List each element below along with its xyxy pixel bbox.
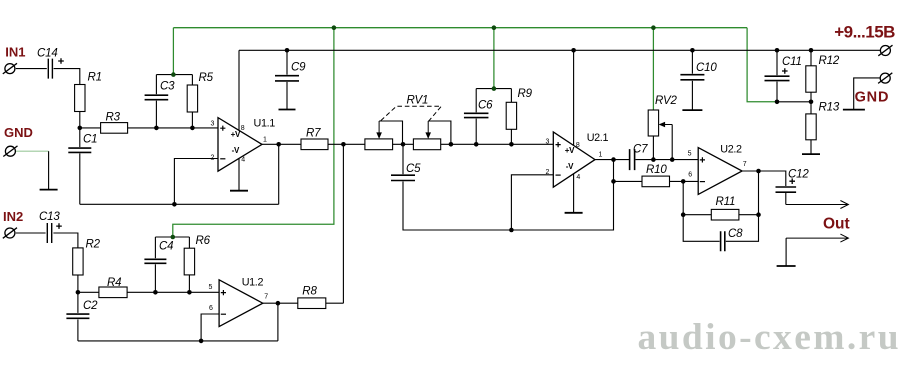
svg-text:R5: R5 [199, 72, 214, 84]
svg-text:4: 4 [241, 156, 245, 163]
svg-text:+V: +V [565, 146, 575, 155]
svg-text:4: 4 [576, 174, 580, 181]
svg-text:R3: R3 [106, 112, 121, 124]
svg-text:GND: GND [4, 125, 33, 140]
svg-text:C4: C4 [159, 241, 173, 253]
svg-text:RV2: RV2 [655, 95, 677, 107]
svg-text:R6: R6 [196, 235, 211, 247]
svg-text:1: 1 [599, 152, 603, 159]
svg-text:audio-cxem.ru: audio-cxem.ru [638, 317, 900, 358]
svg-text:1: 1 [263, 137, 267, 144]
svg-text:C8: C8 [728, 228, 743, 240]
svg-text:2: 2 [211, 154, 215, 161]
svg-text:6: 6 [688, 172, 692, 179]
svg-text:C6: C6 [478, 100, 493, 112]
svg-text:8: 8 [241, 125, 245, 132]
svg-text:IN2: IN2 [3, 209, 23, 224]
svg-text:C2: C2 [83, 300, 98, 312]
svg-text:R7: R7 [306, 128, 321, 140]
svg-text:C10: C10 [696, 62, 717, 74]
svg-text:R11: R11 [716, 196, 736, 208]
svg-text:C3: C3 [160, 81, 175, 93]
svg-text:R2: R2 [86, 239, 101, 251]
svg-text:U1.1: U1.1 [254, 117, 276, 129]
svg-text:C13: C13 [39, 211, 60, 223]
svg-text:R10: R10 [646, 164, 667, 176]
svg-text:R8: R8 [302, 285, 317, 297]
svg-text:C7: C7 [633, 143, 648, 155]
svg-text:C1: C1 [83, 134, 97, 146]
svg-text:5: 5 [688, 150, 692, 157]
svg-text:IN1: IN1 [5, 44, 25, 59]
svg-text:RV1: RV1 [407, 94, 429, 106]
svg-text:R13: R13 [819, 101, 840, 113]
svg-text:C5: C5 [406, 163, 421, 175]
svg-text:5: 5 [209, 284, 213, 291]
svg-text:-V: -V [232, 146, 240, 155]
svg-text:3: 3 [211, 120, 215, 127]
svg-text:R1: R1 [88, 72, 102, 84]
svg-text:-V: -V [566, 162, 574, 171]
svg-text:C14: C14 [37, 47, 58, 59]
svg-text:GND: GND [855, 90, 890, 106]
svg-text:8: 8 [576, 142, 580, 149]
svg-text:R9: R9 [518, 88, 533, 100]
svg-text:Out: Out [823, 216, 850, 233]
svg-text:U2.2: U2.2 [720, 143, 742, 155]
svg-text:C11: C11 [782, 56, 802, 68]
svg-text:R4: R4 [107, 277, 121, 289]
svg-text:2: 2 [546, 169, 550, 176]
svg-text:6: 6 [209, 305, 213, 312]
svg-text:7: 7 [264, 294, 268, 301]
svg-text:U2.1: U2.1 [587, 132, 609, 144]
svg-text:U1.2: U1.2 [242, 276, 264, 288]
svg-text:7: 7 [743, 161, 747, 168]
svg-text:+9...15В: +9...15В [834, 22, 895, 41]
svg-text:R12: R12 [819, 55, 840, 67]
svg-text:3: 3 [546, 138, 550, 145]
svg-text:+V: +V [231, 130, 241, 139]
svg-text:C12: C12 [788, 169, 809, 181]
svg-text:C9: C9 [291, 62, 306, 74]
